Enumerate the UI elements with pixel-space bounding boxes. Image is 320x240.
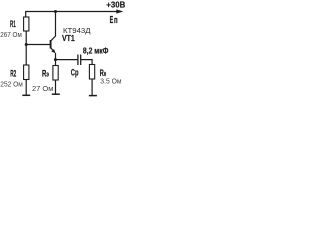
- svg-text:8,2 мкФ: 8,2 мкФ: [83, 46, 109, 56]
- svg-text:Ср: Ср: [71, 67, 79, 78]
- svg-text:R1: R1: [10, 19, 16, 29]
- svg-text:п: п: [114, 15, 118, 25]
- svg-text:267 Ом: 267 Ом: [0, 30, 22, 39]
- svg-text:Е: Е: [110, 15, 114, 26]
- svg-text:3.5 Ом: 3.5 Ом: [100, 76, 121, 85]
- svg-text:э: э: [46, 69, 49, 78]
- svg-text:27 Ом: 27 Ом: [32, 84, 53, 93]
- svg-text:VT1: VT1: [62, 33, 75, 43]
- svg-text:R2: R2: [10, 69, 16, 79]
- svg-text:+30В: +30В: [106, 1, 125, 10]
- svg-text:252 Ом: 252 Ом: [0, 79, 23, 88]
